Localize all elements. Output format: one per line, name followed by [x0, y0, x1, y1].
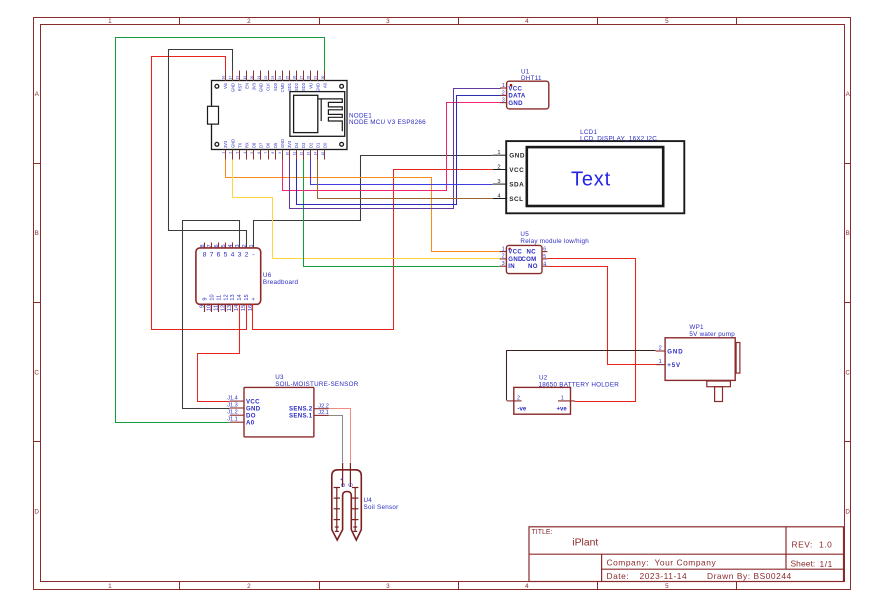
svg-text:VU: VU: [308, 83, 313, 89]
svg-text:1: 1: [502, 83, 505, 89]
svg-text:COM: COM: [521, 256, 536, 263]
svg-text:GND: GND: [280, 139, 285, 148]
svg-text:U2: U2: [539, 374, 548, 381]
svg-text:G: G: [349, 483, 355, 487]
svg-text:5: 5: [665, 583, 669, 590]
svg-text:7: 7: [210, 252, 214, 259]
NODE1 pin names and numbers: [222, 76, 328, 156]
svg-text:3: 3: [238, 252, 242, 259]
svg-text:19: 19: [243, 76, 247, 80]
svg-text:6: 6: [543, 246, 546, 252]
U1 pin numbers: [502, 83, 505, 104]
wire NODE1 D4 to U1 DATA (dark blue): [297, 96, 501, 205]
svg-text:8: 8: [271, 152, 275, 154]
svg-text:2: 2: [245, 252, 249, 259]
U5 pin names: [508, 249, 537, 271]
svg-text:GND: GND: [509, 153, 525, 160]
svg-text:3: 3: [235, 244, 241, 247]
svg-text:Relay module low/high: Relay module low/high: [520, 238, 589, 245]
U6 pin names and numbers: [200, 244, 257, 311]
wire NODE1 D1 to LCD1 SCL (brown): [318, 160, 493, 199]
svg-text:10: 10: [210, 294, 216, 300]
wire NODE1 3V3 to U5 VCC (orange): [226, 160, 500, 252]
svg-text:REV:: REV:: [792, 540, 813, 550]
svg-text:20: 20: [250, 76, 254, 80]
svg-text:Sheet:: Sheet:: [791, 559, 816, 569]
svg-text:15: 15: [244, 294, 250, 300]
svg-text:D: D: [845, 509, 850, 516]
svg-text:3: 3: [502, 98, 505, 104]
svg-text:2: 2: [502, 90, 505, 96]
wire U5 NO to WP1 +5V (red): [548, 267, 656, 365]
svg-text:4: 4: [243, 152, 247, 154]
svg-text:2: 2: [229, 152, 233, 154]
svg-text:10: 10: [207, 305, 213, 311]
svg-text:8: 8: [203, 252, 207, 259]
svg-text:11: 11: [292, 152, 296, 156]
svg-text:13: 13: [307, 152, 311, 156]
svg-text:GND: GND: [230, 83, 235, 92]
svg-text:J1.2: J1.2: [227, 409, 238, 415]
svg-text:29: 29: [314, 76, 318, 80]
svg-text:Breadboard: Breadboard: [263, 279, 299, 286]
svg-text:GND: GND: [667, 349, 683, 356]
svg-text:23: 23: [271, 76, 275, 80]
sensor U3 SOIL-MOISTURE-SENSOR: [230, 374, 359, 437]
svg-text:27: 27: [300, 76, 304, 80]
svg-text:21: 21: [257, 76, 261, 80]
svg-text:+ve: +ve: [557, 406, 568, 412]
svg-text:16: 16: [248, 305, 254, 311]
svg-text:1: 1: [561, 395, 564, 401]
wire NODE1 Vin to 5V bus to breadboard pin15 (red): [152, 57, 247, 330]
svg-text:VCC: VCC: [508, 85, 522, 92]
svg-text:SD1: SD1: [287, 82, 292, 91]
svg-text:U5: U5: [520, 231, 529, 238]
wire breadboard pin3 to U3 GND (black): [183, 221, 240, 409]
svg-text:5: 5: [665, 18, 669, 25]
svg-text:6: 6: [257, 152, 261, 154]
svg-text:3V3: 3V3: [252, 82, 257, 90]
svg-text:VCC: VCC: [509, 167, 524, 174]
svg-text:4: 4: [231, 252, 235, 259]
svg-text:1: 1: [222, 152, 226, 154]
svg-text:GND: GND: [246, 405, 261, 412]
svg-text:D0: D0: [323, 142, 328, 148]
svg-text:J1.4: J1.4: [227, 395, 238, 401]
svg-text:D7: D7: [259, 142, 264, 148]
relay U5 Relay module low/high: [500, 231, 590, 273]
U3 pin names: [246, 398, 313, 426]
svg-text:A: A: [846, 91, 851, 98]
wire NODE1 3V to U1 VCC (purple): [290, 89, 501, 209]
svg-text:1: 1: [497, 150, 500, 156]
WP1 pin names: [667, 349, 683, 370]
svg-text:14: 14: [234, 305, 240, 311]
svg-text:15: 15: [241, 305, 247, 311]
svg-text:1: 1: [108, 583, 112, 590]
svg-text:A: A: [35, 91, 40, 98]
svg-text:7: 7: [207, 244, 213, 247]
svg-text:C: C: [34, 369, 39, 376]
svg-text:14: 14: [237, 294, 243, 300]
wire breadboard pin14 to U3 VCC (red): [198, 305, 240, 402]
svg-text:3V3: 3V3: [287, 140, 292, 148]
svg-text:3: 3: [386, 18, 390, 25]
U5 pin numbers: [502, 246, 547, 267]
svg-text:DATA: DATA: [508, 93, 526, 100]
svg-text:1.0: 1.0: [819, 540, 832, 550]
svg-text:11: 11: [213, 305, 219, 311]
svg-text:25: 25: [285, 76, 289, 80]
svg-text:Drawn By: BS00244: Drawn By: BS00244: [707, 571, 792, 581]
wire NODE1 GND bottom to U5 GND (yellow): [233, 160, 500, 259]
sensor U1 DHT11: [500, 69, 549, 109]
svg-text:16: 16: [222, 76, 226, 80]
svg-text:6: 6: [214, 244, 220, 247]
svg-text:13: 13: [227, 305, 233, 311]
svg-text:2: 2: [242, 244, 248, 247]
svg-text:18: 18: [236, 76, 240, 80]
svg-text:SOIL-MOISTURE-SENSOR: SOIL-MOISTURE-SENSOR: [275, 381, 359, 388]
wire U3 SENS.1 to U4 left pin (gray): [329, 416, 343, 463]
svg-text:5: 5: [543, 254, 546, 260]
wire NODE1 A0 to U3 A0 (green): [116, 38, 325, 423]
svg-text:17: 17: [229, 76, 233, 80]
svg-text:G: G: [341, 483, 347, 487]
svg-text:A0: A0: [246, 420, 255, 427]
svg-text:1: 1: [502, 246, 505, 252]
svg-text:TX: TX: [237, 142, 242, 148]
svg-text:12: 12: [220, 305, 226, 311]
svg-text:SD0: SD0: [273, 82, 278, 91]
svg-text:15: 15: [321, 152, 325, 156]
wire NODE1 D3 to U5 IN (green): [304, 160, 500, 267]
title block: [529, 527, 844, 582]
svg-text:C: C: [845, 369, 850, 376]
svg-text:2: 2: [497, 165, 500, 171]
svg-text:NO: NO: [528, 263, 538, 270]
svg-text:SD3: SD3: [301, 82, 306, 91]
svg-text:6: 6: [217, 252, 221, 259]
WP1 pin numbers: [659, 345, 662, 365]
svg-text:CLK: CLK: [266, 83, 271, 91]
svg-text:1/1: 1/1: [820, 559, 833, 569]
svg-text:NODE MCU V3 ESP8266: NODE MCU V3 ESP8266: [349, 119, 426, 126]
svg-text:2: 2: [659, 345, 662, 351]
LCD1 pin names: [509, 153, 525, 203]
svg-text:22: 22: [264, 76, 268, 80]
svg-text:GND: GND: [315, 83, 320, 92]
svg-text:DHT11: DHT11: [521, 75, 542, 82]
svg-text:D2: D2: [308, 142, 313, 148]
svg-text:12: 12: [223, 294, 229, 300]
svg-text:D1: D1: [315, 142, 320, 148]
svg-text:5V water pump: 5V water pump: [689, 331, 735, 338]
wire breadboard pin1 to LCD1 GND (black): [254, 156, 493, 248]
svg-text:TITLE:: TITLE:: [532, 529, 553, 536]
svg-text:4: 4: [543, 261, 546, 267]
svg-text:2: 2: [247, 583, 251, 590]
svg-text:5: 5: [250, 152, 254, 154]
svg-text:D3: D3: [301, 142, 306, 148]
svg-text:CMD: CMD: [280, 83, 285, 92]
svg-text:D: D: [34, 509, 39, 516]
svg-text:J2.1: J2.1: [318, 410, 329, 416]
probe U4 Soil Sensor: [332, 463, 399, 540]
svg-text:SCL: SCL: [509, 196, 523, 203]
U4 pin markers: [340, 477, 355, 487]
microcontroller NODE1 NODE MCU V3 ESP8266: [208, 71, 427, 160]
breadboard U6: [196, 243, 299, 313]
svg-text:24: 24: [278, 76, 282, 80]
svg-text:+: +: [251, 297, 257, 300]
svg-text:4: 4: [228, 244, 234, 247]
svg-text:2: 2: [517, 395, 520, 401]
svg-text:3: 3: [497, 179, 500, 185]
svg-text:9: 9: [203, 297, 209, 300]
svg-text:3: 3: [502, 261, 505, 267]
svg-text:3V3: 3V3: [223, 140, 228, 148]
svg-text:5: 5: [221, 244, 227, 247]
wire NODE1 GND to U1 GND (pink): [283, 103, 501, 191]
svg-text:NC: NC: [527, 249, 537, 256]
svg-text:IN: IN: [508, 263, 515, 270]
svg-text:3: 3: [236, 152, 240, 154]
svg-text:12: 12: [300, 152, 304, 156]
wire U5 COM to U2 +ve (red): [548, 259, 636, 402]
svg-text:3: 3: [386, 583, 390, 590]
svg-text:Date:: Date:: [607, 571, 630, 581]
svg-text:1: 1: [108, 18, 112, 25]
svg-text:8: 8: [200, 244, 206, 247]
svg-text:14: 14: [314, 152, 318, 156]
svg-text:Company:: Company:: [607, 558, 650, 568]
svg-text:WP1: WP1: [689, 324, 704, 331]
wire NODE1 GND top to breadboard pin2 (black): [169, 50, 247, 248]
svg-text:VCC: VCC: [508, 249, 522, 256]
display LCD1 LCD_DISPLAY_16X2 I2C: [493, 129, 685, 214]
svg-text:4: 4: [525, 583, 529, 590]
svg-text:J1.1: J1.1: [227, 416, 238, 422]
svg-text:13: 13: [230, 294, 236, 300]
svg-text:J1.3: J1.3: [227, 402, 238, 408]
svg-text:B: B: [846, 230, 850, 237]
LCD1 pin numbers: [497, 150, 501, 199]
svg-text:U4: U4: [364, 497, 373, 504]
svg-text:J2.2: J2.2: [318, 403, 329, 409]
svg-text:D4: D4: [294, 142, 299, 148]
svg-text:28: 28: [307, 76, 311, 80]
U3 pin numbers: [227, 395, 329, 422]
svg-text:D6: D6: [266, 142, 271, 148]
U2 pin names: [518, 406, 568, 412]
U2 pin numbers: [517, 395, 564, 401]
svg-text:RST: RST: [237, 83, 242, 92]
pump WP1 5V water pump: [656, 324, 740, 402]
wire U3 SENS.2 to U4 right pin (salmon): [329, 409, 351, 463]
svg-text:1: 1: [249, 244, 255, 247]
svg-text:2: 2: [502, 254, 505, 260]
U1 pin names: [508, 85, 526, 107]
svg-text:SD2: SD2: [294, 82, 299, 91]
svg-text:RX: RX: [245, 142, 250, 148]
svg-text:4: 4: [525, 18, 529, 25]
svg-text:EN: EN: [245, 83, 250, 89]
svg-text:GND: GND: [259, 83, 264, 92]
svg-text:1: 1: [659, 359, 662, 365]
svg-text:A0: A0: [323, 82, 328, 88]
svg-text:7: 7: [264, 152, 268, 154]
wire breadboard pin16 to LCD1 VCC (red): [253, 170, 493, 330]
svg-text:LCD_DISPLAY_16X2 I2C: LCD_DISPLAY_16X2 I2C: [580, 135, 657, 142]
svg-text:9: 9: [278, 152, 282, 154]
svg-text:+: +: [340, 477, 343, 483]
svg-text:18650 BATTERY HOLDER: 18650 BATTERY HOLDER: [539, 381, 620, 388]
svg-text:11: 11: [216, 295, 222, 301]
svg-text:-: -: [252, 252, 254, 259]
svg-text:SDA: SDA: [509, 182, 524, 189]
battery U2 18650 BATTERY HOLDER: [507, 374, 619, 414]
svg-text:9: 9: [200, 305, 206, 308]
wire NODE1 D2 to LCD1 SDA (blue violet): [311, 160, 493, 185]
svg-text:30: 30: [321, 76, 325, 80]
wire U2 -ve to WP1 GND (dark brown): [507, 351, 656, 401]
svg-text:Soil Sensor: Soil Sensor: [364, 504, 399, 511]
svg-text:B: B: [35, 230, 39, 237]
svg-text:5: 5: [224, 252, 228, 259]
svg-text:26: 26: [292, 76, 296, 80]
svg-text:SENS.1: SENS.1: [289, 413, 313, 420]
svg-text:Text: Text: [571, 168, 611, 190]
svg-text:Vin: Vin: [223, 82, 228, 89]
svg-text:10: 10: [285, 152, 289, 156]
svg-text:GND: GND: [230, 139, 235, 148]
svg-text:2023-11-14: 2023-11-14: [640, 571, 688, 581]
svg-text:D5: D5: [273, 142, 278, 148]
svg-text:GND: GND: [508, 100, 523, 107]
svg-text:-ve: -ve: [518, 406, 527, 412]
svg-text:DO: DO: [246, 413, 256, 420]
svg-text:Your Company: Your Company: [655, 558, 717, 568]
svg-text:2: 2: [247, 18, 251, 25]
svg-text:D8: D8: [252, 142, 257, 148]
svg-text:iPlant: iPlant: [572, 537, 598, 548]
svg-text:+5V: +5V: [667, 362, 681, 369]
